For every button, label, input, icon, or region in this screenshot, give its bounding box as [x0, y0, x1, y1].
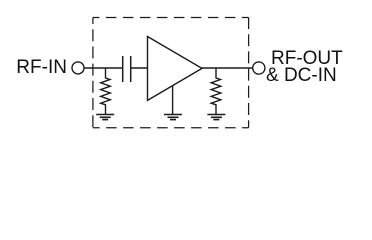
- op-amp / amplifier A1 (triangle): [148, 37, 203, 101]
- resistor R1: [101, 68, 111, 114]
- wire: amplifier ground stem: [172, 86, 174, 114]
- wire: C1 to amplifier input: [131, 67, 147, 69]
- ground (below R2): [207, 115, 225, 120]
- ground (below R1): [96, 115, 114, 120]
- terminal J2 (RF-OUT & DC-IN port circle): [253, 62, 265, 74]
- wire: J1 to capacitor C1 left plate: [85, 67, 123, 69]
- module outline (dashed box): [93, 18, 249, 128]
- capacitor C1: [123, 56, 131, 82]
- resistor R2: [211, 68, 221, 114]
- svg-text:RF-IN: RF-IN: [16, 57, 67, 78]
- wire: amplifier output to terminal J2: [202, 67, 252, 69]
- svg-text:& DC-IN: & DC-IN: [266, 65, 337, 86]
- ground (below amplifier): [164, 115, 182, 120]
- terminal J1 (RF-IN port circle): [72, 62, 84, 74]
